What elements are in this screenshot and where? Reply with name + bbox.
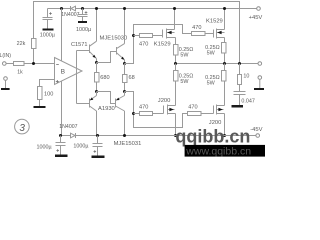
node rail junction A — [60, 7, 63, 10]
svg-text:A1930: A1930 — [98, 106, 115, 112]
svg-text:MJE15030: MJE15030 — [100, 36, 128, 42]
resistor 0.25 upper1 — [174, 45, 179, 56]
wire node C to gate routing upper — [125, 25, 192, 64]
svg-text:1000µ: 1000µ — [37, 144, 52, 150]
resistor 1k — [14, 62, 25, 66]
svg-text:470: 470 — [139, 105, 148, 111]
diode D1 1N4007 — [70, 6, 72, 11]
resistor 22k — [32, 39, 37, 49]
svg-text:+45V: +45V — [249, 15, 263, 21]
power rail +45V — [48, 8, 257, 10]
svg-text:5W: 5W — [207, 50, 216, 56]
resistor 470 upper2 — [192, 32, 206, 36]
svg-text:470: 470 — [188, 105, 197, 111]
svg-text:5W: 5W — [180, 79, 189, 85]
node output terminal — [258, 62, 262, 66]
svg-text:B: B — [61, 69, 66, 76]
resistor 470 upper1 — [140, 34, 153, 38]
node A — [95, 61, 98, 64]
wire node B to Q4 base — [97, 92, 116, 104]
capacitor C2 1000u — [82, 9, 84, 15]
wire output line — [176, 63, 259, 65]
capacitor C4 1000u — [97, 136, 99, 144]
svg-text:1k: 1k — [17, 70, 23, 76]
svg-text:K1529: K1529 — [154, 41, 171, 47]
svg-text:J200: J200 — [209, 120, 222, 126]
svg-text:1N4007: 1N4007 — [59, 124, 77, 130]
wire feedback frame top and sides — [33, 49, 35, 64]
resistor 470 lower2 — [188, 112, 202, 116]
resistor 680 — [96, 63, 98, 73]
svg-text:100: 100 — [44, 92, 53, 98]
svg-text:5W: 5W — [207, 81, 216, 87]
node B — [95, 90, 98, 93]
svg-text:L(IN): L(IN) — [0, 53, 11, 59]
svg-text:K1529: K1529 — [206, 19, 223, 25]
wire non-inverting input — [40, 80, 55, 87]
wire to op-amp inverting input — [24, 63, 55, 65]
svg-text:1N4007: 1N4007 — [61, 12, 79, 18]
resistor 0.25 lower2 — [222, 71, 227, 82]
svg-text:1000µ: 1000µ — [76, 27, 91, 33]
wire op-amp V- supply — [61, 81, 63, 136]
wire node A to Q2 base — [97, 52, 117, 63]
svg-text:www.qqibb.cn: www.qqibb.cn — [185, 146, 251, 158]
resistor 470 lower1 — [140, 112, 153, 116]
svg-text:-45V: -45V — [250, 127, 262, 133]
svg-text:470: 470 — [139, 41, 148, 47]
svg-text:680: 680 — [100, 75, 109, 81]
svg-text:3: 3 — [19, 123, 25, 134]
wire op-amp V+ supply — [61, 9, 63, 62]
wire driver base chain — [76, 51, 78, 104]
capacitor 0.047 — [239, 85, 241, 92]
resistor 10 zobel — [239, 64, 241, 75]
resistor 0.25 upper2 — [222, 43, 227, 54]
svg-text:5W: 5W — [180, 52, 189, 58]
ground — [34, 106, 46, 108]
wire input — [6, 63, 13, 65]
svg-text:qqibb.cn: qqibb.cn — [175, 126, 250, 146]
capacitor C1 1000u — [47, 9, 49, 18]
node figure number 3 — [15, 119, 30, 134]
svg-text:1000µ: 1000µ — [73, 144, 88, 150]
svg-text:68: 68 — [129, 75, 135, 81]
node speaker ground terminal — [258, 76, 262, 80]
wire node D to gate routing lower — [125, 92, 188, 128]
svg-text:0.047: 0.047 — [241, 99, 255, 105]
svg-text:22k: 22k — [17, 41, 26, 47]
svg-text:MJE15031: MJE15031 — [114, 141, 142, 147]
ground input terminal — [4, 77, 8, 81]
node rail junction B — [81, 7, 84, 10]
svg-text:J200: J200 — [158, 98, 171, 104]
capacitor C3 1000u — [60, 136, 62, 143]
node inverting input junction — [32, 62, 35, 65]
diode D2 1N4007 — [75, 133, 77, 138]
svg-text:1000µ: 1000µ — [40, 32, 55, 38]
resistor 0.25 lower1 — [174, 71, 179, 82]
ground — [232, 105, 244, 108]
resistor 68 — [123, 62, 126, 65]
power rail -45V — [61, 135, 256, 137]
svg-text:10: 10 — [243, 73, 249, 79]
op-amp U1 — [55, 58, 83, 85]
resistor 100 — [38, 87, 43, 100]
svg-text:C1571: C1571 — [71, 42, 87, 48]
svg-text:470: 470 — [192, 25, 201, 31]
